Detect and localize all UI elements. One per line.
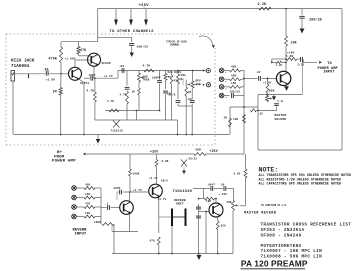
svg-text:100PF: 100PF xyxy=(152,76,161,79)
svg-text:15K: 15K xyxy=(85,193,91,196)
svg-text:SF908 - 2N4249: SF908 - 2N4249 xyxy=(261,233,302,238)
svg-text:10K: 10K xyxy=(206,200,211,203)
svg-text:+1.8V: +1.8V xyxy=(46,78,56,81)
svg-text:1M: 1M xyxy=(167,92,171,95)
svg-text:REVERB: REVERB xyxy=(174,199,186,202)
svg-text:100/25: 100/25 xyxy=(137,44,149,48)
svg-text:CHANNEL: CHANNEL xyxy=(170,43,180,46)
svg-text:INPUT: INPUT xyxy=(323,70,335,74)
svg-text:+.64V: +.64V xyxy=(219,193,228,196)
svg-text:47K: 47K xyxy=(80,48,86,52)
svg-text:UNIT: UNIT xyxy=(176,203,184,206)
svg-text:10K: 10K xyxy=(291,40,297,44)
svg-text:4.7K: 4.7K xyxy=(87,90,95,93)
svg-text:68/6: 68/6 xyxy=(161,178,168,182)
svg-text:.02: .02 xyxy=(255,71,261,74)
svg-text:15K: 15K xyxy=(85,212,91,215)
svg-text:45K: 45K xyxy=(196,83,202,86)
svg-text:VOL: VOL xyxy=(181,74,187,77)
svg-text:1.2K: 1.2K xyxy=(276,64,283,67)
svg-text:45K: 45K xyxy=(231,66,237,69)
svg-text:50K BASS: 50K BASS xyxy=(168,71,182,74)
svg-text:+1.65V: +1.65V xyxy=(65,57,76,60)
svg-text:+25V: +25V xyxy=(210,149,218,153)
svg-text:SF908: SF908 xyxy=(102,62,111,65)
svg-text:20PF: 20PF xyxy=(114,187,121,190)
svg-text:5.6K: 5.6K xyxy=(286,55,294,58)
svg-text:TO OTHER CHANNELS: TO OTHER CHANNELS xyxy=(110,30,155,34)
svg-text:+1.7V: +1.7V xyxy=(104,75,113,78)
svg-text:1K: 1K xyxy=(132,90,136,93)
svg-text:+25V: +25V xyxy=(150,150,158,154)
svg-text:TO: TO xyxy=(327,62,332,66)
svg-text:4.7K: 4.7K xyxy=(143,64,151,67)
svg-text:INPUT: INPUT xyxy=(75,233,87,237)
svg-text:2.2K: 2.2K xyxy=(258,3,268,7)
svg-text:VOLUME: VOLUME xyxy=(274,117,286,121)
svg-text:50K: 50K xyxy=(227,201,232,204)
svg-text:HI2A JACK: HI2A JACK xyxy=(11,60,35,64)
svg-text:50K: 50K xyxy=(196,148,202,151)
svg-text:71S1318: 71S1318 xyxy=(111,129,124,132)
svg-text:100K: 100K xyxy=(133,172,140,175)
svg-text:45K: 45K xyxy=(231,74,237,77)
svg-text:50: 50 xyxy=(221,184,225,187)
svg-text:470: 470 xyxy=(150,240,156,243)
svg-text:2/25: 2/25 xyxy=(297,62,304,66)
svg-text:.1: .1 xyxy=(105,202,109,205)
svg-text:.05: .05 xyxy=(43,67,49,71)
svg-text:6.8K: 6.8K xyxy=(162,160,169,163)
svg-text:.0047: .0047 xyxy=(207,184,216,187)
svg-text:820: 820 xyxy=(221,224,227,227)
svg-text:50K: 50K xyxy=(269,90,275,93)
svg-text:TO JUNCTION OF C.W.: TO JUNCTION OF C.W. xyxy=(261,204,287,207)
svg-text:71011310: 71011310 xyxy=(173,190,193,194)
svg-text:POWER AMP: POWER AMP xyxy=(52,160,76,164)
svg-text:8.2K: 8.2K xyxy=(234,172,241,175)
svg-text:10K: 10K xyxy=(233,118,239,121)
svg-text:.02: .02 xyxy=(119,65,125,68)
svg-text:+1.8V: +1.8V xyxy=(263,81,272,84)
svg-text:1M: 1M xyxy=(188,91,192,94)
svg-text:TREB: TREB xyxy=(143,78,150,81)
svg-text:+1.7V: +1.7V xyxy=(133,189,142,192)
svg-text:100/25: 100/25 xyxy=(230,90,241,94)
svg-text:100/25: 100/25 xyxy=(309,18,322,23)
svg-text:71A6004: 71A6004 xyxy=(11,65,30,69)
svg-text:.02: .02 xyxy=(258,113,263,116)
svg-text:4.7K: 4.7K xyxy=(107,100,114,103)
svg-text:1M: 1M xyxy=(224,117,228,120)
svg-text:470K: 470K xyxy=(49,57,58,61)
svg-text:C.W.: C.W. xyxy=(278,100,285,103)
svg-text:180K: 180K xyxy=(94,221,101,224)
svg-text:47K: 47K xyxy=(85,202,91,205)
svg-text:15K: 15K xyxy=(231,82,237,85)
svg-text:ALL CAPACITORS SPS UNLESS OTHE: ALL CAPACITORS SPS UNLESS OTHERWISE NOTE… xyxy=(259,182,342,186)
svg-text:PA 120 PREAMP: PA 120 PREAMP xyxy=(241,259,308,269)
svg-text:45K: 45K xyxy=(85,183,91,186)
svg-text:SF253 - 2N3391A: SF253 - 2N3391A xyxy=(261,228,305,233)
svg-text:+18V: +18V xyxy=(287,51,295,54)
svg-text:MASTER REVERB: MASTER REVERB xyxy=(244,211,276,215)
svg-text:SF253: SF253 xyxy=(80,82,89,85)
svg-text:50/25: 50/25 xyxy=(189,157,198,161)
svg-text:1M: 1M xyxy=(53,89,57,93)
